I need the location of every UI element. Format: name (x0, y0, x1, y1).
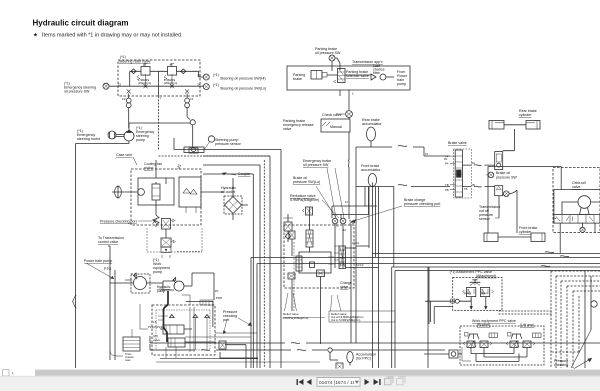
svg-text:T: T (160, 97, 162, 101)
svg-text:Items marked with *1 in drawin: Items marked with *1 in drawing may or m… (42, 33, 183, 39)
svg-text:valve: valve (153, 338, 160, 342)
svg-text:pump: pump (136, 138, 145, 142)
svg-text:★: ★ (33, 32, 38, 39)
svg-text:(Lift arm): (Lift arm) (520, 323, 534, 327)
svg-text:(*1): (*1) (120, 55, 126, 59)
svg-text:valve: valve (340, 285, 348, 289)
svg-text:(Bucket): (Bucket) (477, 323, 490, 327)
svg-text:Check valve: Check valve (322, 113, 342, 117)
svg-text:pressure sensor: pressure sensor (215, 142, 242, 146)
svg-text:PLS(P)PLSD: PLS(P)PLSD (148, 325, 164, 329)
svg-text:(Rise): (Rise) (481, 292, 488, 295)
svg-text:10MPa(105kgf/cm): 10MPa(105kgf/cm) (283, 316, 308, 320)
svg-text:{20kgf/cm}: {20kgf/cm} (164, 81, 177, 85)
svg-text:valve: valve (572, 185, 580, 189)
svg-text:01674 (1674 / 1t: 01674 (1674 / 1t (319, 380, 355, 386)
svg-text:accumulator: accumulator (362, 122, 382, 126)
svg-text:2A: 2A (472, 161, 476, 165)
svg-text:cylinder: cylinder (519, 113, 532, 117)
svg-text:pump: pump (397, 82, 406, 86)
svg-text:2B: 2B (472, 183, 475, 187)
svg-text:F2: F2 (122, 97, 126, 101)
svg-text:Brake valve: Brake valve (448, 141, 467, 145)
svg-text:F1: F1 (190, 97, 194, 101)
svg-text:oil pressure SW: oil pressure SW (315, 51, 341, 55)
svg-text:Power train pump: Power train pump (84, 259, 112, 263)
svg-text:TA: TA (425, 152, 428, 156)
svg-text:pressure checking port: pressure checking port (404, 202, 440, 206)
svg-text:PDP: PDP (216, 296, 222, 300)
svg-text:sensor: sensor (479, 217, 491, 221)
svg-text:Steering oil pressure SW(Hi): Steering oil pressure SW(Hi) (220, 77, 266, 81)
svg-text:TB: TB (464, 187, 468, 191)
svg-text:(Attachment): (Attachment) (476, 274, 497, 278)
svg-text:case: case (125, 359, 131, 362)
svg-text:checking: checking (554, 363, 568, 367)
svg-text:(for PPC): (for PPC) (356, 357, 371, 361)
svg-text:COW: COW (125, 278, 132, 282)
svg-text:Pressure checking port: Pressure checking port (100, 220, 137, 224)
svg-text:pressure SW(Lo): pressure SW(Lo) (293, 180, 320, 184)
svg-text:pressure SW: pressure SW (496, 176, 517, 180)
svg-text:TB: TB (445, 183, 449, 187)
svg-text:motor: motor (144, 166, 154, 170)
svg-text:pump: pump (153, 270, 162, 274)
svg-text:PTO: PTO (104, 267, 112, 271)
svg-text:ACC1: ACC1 (352, 241, 360, 245)
svg-text:accumulator: accumulator (361, 168, 381, 172)
svg-text:Coupler: Coupler (238, 172, 251, 176)
svg-text:Manual: Manual (330, 125, 342, 129)
svg-text:LS: LS (153, 320, 157, 324)
svg-text:ACC2: ACC2 (356, 263, 364, 267)
svg-text:oil cooler: oil cooler (221, 190, 236, 194)
svg-text:Ta: Ta (178, 164, 181, 168)
svg-text:(*1): (*1) (213, 83, 219, 87)
svg-text:cylinder: cylinder (519, 230, 532, 234)
svg-text:filter: filter (373, 71, 381, 75)
svg-text:P1: P1 (215, 289, 219, 293)
svg-text:oil pressure SW: oil pressure SW (64, 90, 90, 94)
svg-text:(*1): (*1) (213, 73, 219, 77)
svg-text:P4: P4 (445, 162, 449, 166)
svg-text:solenoid valve: solenoid valve (346, 74, 369, 78)
svg-text:Out is :5.0MPa(58kgf/cm): Out is :5.0MPa(58kgf/cm) (331, 318, 361, 322)
svg-text:pump: pump (157, 289, 165, 293)
svg-text:0.9MPa(80kgf/cm): 0.9MPa(80kgf/cm) (290, 198, 319, 202)
svg-text:valve: valve (283, 127, 291, 131)
svg-text:oil pressure SW: oil pressure SW (303, 163, 329, 167)
svg-text:PB: PB (445, 188, 449, 192)
svg-text:Hydraulic circuit diagram: Hydraulic circuit diagram (33, 19, 129, 28)
svg-text:Brake oil: Brake oil (496, 171, 510, 175)
svg-text:steering motor: steering motor (77, 137, 101, 141)
svg-text:brake: brake (293, 77, 302, 81)
svg-text:(Low): (Low) (464, 292, 470, 295)
svg-text:port: port (223, 318, 229, 322)
svg-text:{20kgf/cm}: {20kgf/cm} (138, 81, 151, 85)
svg-text:PA: PA (444, 157, 448, 161)
svg-text:control valve: control valve (98, 240, 118, 244)
svg-text:Case vent: Case vent (116, 153, 132, 157)
svg-text:Steering oil pressure SW(Lo): Steering oil pressure SW(Lo) (220, 87, 266, 91)
